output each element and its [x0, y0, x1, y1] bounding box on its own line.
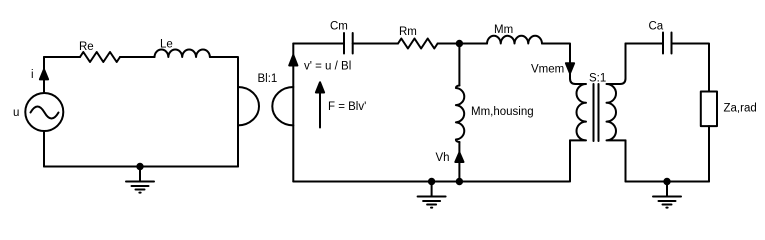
transformer core: [594, 84, 599, 141]
wire: left loop top right segment: [210, 57, 238, 167]
wire: between Rm and junction: [438, 43, 487, 45]
wire: between Cm and Rm: [353, 43, 398, 45]
wire: transformer primary bottom lead: [569, 140, 571, 181]
velocity arrow v': [289, 55, 297, 66]
transformer S:1 secondary coil: [607, 79, 626, 141]
gyrator Bl:1 right half: [272, 87, 293, 125]
inductor Mm,housing: [456, 86, 464, 143]
svg-text:Re: Re: [79, 41, 94, 53]
wire: source top lead: [43, 57, 45, 93]
svg-text:Mm,housing: Mm,housing: [471, 106, 534, 118]
impedance Za,rad: [701, 92, 717, 127]
wire: right top, right of Ca: [672, 44, 710, 92]
svg-text:Vh: Vh: [436, 152, 450, 164]
voltage arrow Vh (up): [455, 153, 463, 163]
svg-text:Za,rad: Za,rad: [724, 103, 757, 115]
wire: between Re and Le: [120, 56, 155, 58]
wire: left loop top left segment: [44, 56, 80, 58]
wire: housing branch lower lead: [458, 142, 460, 182]
current arrow i: [40, 69, 48, 79]
wire: right loop left vertical top: [625, 44, 627, 79]
ground (middle): [418, 182, 446, 208]
wire: middle top right corner: [542, 44, 570, 79]
node: housing branch bottom junction: [457, 179, 462, 184]
inductor Mm: [487, 36, 542, 44]
ground (right): [653, 182, 681, 208]
svg-text:i: i: [31, 69, 34, 81]
svg-text:Ca: Ca: [649, 21, 664, 33]
resistor Re: [80, 52, 120, 62]
wire: middle loop bottom: [293, 181, 569, 183]
resistor Rm: [398, 39, 438, 49]
capacitor Ca: [663, 33, 672, 54]
svg-text:Vmem: Vmem: [531, 64, 564, 76]
transformer S:1 primary coil: [570, 79, 586, 141]
ground (left): [126, 167, 154, 193]
wire: right loop right vertical bottom: [708, 126, 710, 181]
wire: right loop bottom: [626, 181, 710, 183]
node: middle ground junction: [429, 179, 434, 184]
wire: right top, left of Ca: [626, 43, 664, 45]
force arrow F = Blv': [316, 82, 324, 127]
gyrator Bl:1 left half: [238, 87, 259, 125]
node: left ground junction: [137, 164, 142, 169]
wire: source bottom lead: [43, 132, 45, 167]
svg-text:Bl:1: Bl:1: [258, 73, 278, 85]
wire: housing branch upper lead: [458, 44, 460, 86]
svg-text:v' = u / Bl: v' = u / Bl: [304, 61, 351, 73]
wire: right loop left vertical bottom: [625, 140, 627, 181]
node: top junction: [457, 41, 462, 46]
svg-text:Mm: Mm: [494, 24, 513, 36]
svg-text:S:1: S:1: [589, 73, 606, 85]
wire: middle top, left of Cm: [293, 43, 344, 45]
voltage source u: [25, 93, 63, 131]
capacitor Cm: [344, 33, 353, 54]
wire: middle loop left vertical: [292, 44, 294, 182]
wire: left loop bottom: [44, 166, 238, 168]
svg-text:F = Blv': F = Blv': [328, 101, 366, 113]
svg-text:Cm: Cm: [330, 21, 348, 33]
svg-text:u: u: [13, 107, 19, 119]
node: right ground junction: [664, 179, 669, 184]
svg-text:Rm: Rm: [399, 26, 417, 38]
svg-text:Le: Le: [160, 39, 173, 51]
voltage arrow Vmem (down): [566, 63, 574, 73]
inductor Le: [155, 49, 210, 57]
